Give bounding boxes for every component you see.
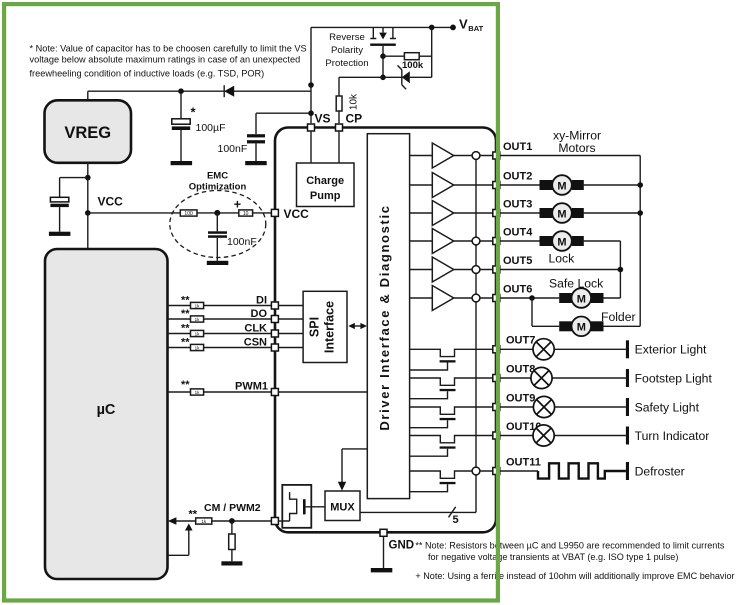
svg-text:GND: GND — [389, 540, 415, 552]
bus slash 5 marker — [449, 507, 459, 526]
node sense tap OUT4 — [472, 237, 480, 245]
wire CSN row — [168, 347, 272, 349]
wire VBAT branch vertical — [431, 27, 433, 77]
svg-text:µC: µC — [97, 402, 116, 418]
svg-text:DI: DI — [256, 294, 267, 306]
pin OUT6 — [493, 295, 500, 302]
interface SPI box — [303, 291, 347, 362]
svg-text:+ Note: Using a ferrite instea: + Note: Using a ferrite instead of 10ohm… — [415, 571, 734, 581]
node junction OUT5 lock — [618, 267, 624, 273]
buffer triangle OUT4 — [410, 229, 493, 254]
capacitor 100nF near VS — [247, 113, 311, 161]
node junction gate to 100k — [380, 53, 386, 59]
pin OUT11 — [493, 468, 500, 475]
svg-text:OUT4: OUT4 — [503, 226, 533, 238]
pin CSN — [271, 344, 278, 351]
svg-text:CM / PWM2: CM / PWM2 — [204, 502, 261, 514]
ground VREG capacitor — [49, 232, 71, 236]
pin CM/PWM2 — [271, 518, 278, 525]
label xy-Mirror Motors — [553, 129, 601, 155]
wire OUT4 row — [500, 241, 621, 298]
svg-text:Footstep Light: Footstep Light — [635, 371, 713, 385]
svg-text:VCC: VCC — [284, 207, 310, 221]
wire OUT8 row — [500, 377, 626, 379]
pin OUT8 — [493, 375, 500, 382]
node junction EMC cap — [214, 210, 220, 216]
svg-text:**: ** — [181, 379, 190, 391]
transistor current mirror box — [282, 485, 325, 528]
wire VREG bottom column to uC — [87, 163, 89, 249]
node sense tap OUT1 — [472, 152, 480, 160]
wire DO row — [168, 318, 272, 320]
svg-text:5: 5 — [453, 514, 459, 526]
wire OUT10 row — [500, 435, 626, 437]
svg-text:1k: 1k — [195, 317, 201, 322]
svg-text:M: M — [577, 293, 586, 305]
svg-text:OUT8: OUT8 — [506, 363, 535, 375]
svg-text:100nF: 100nF — [218, 143, 248, 155]
svg-text:VREG: VREG — [64, 124, 111, 142]
wire driver to MUX with arrow — [338, 449, 368, 491]
label EMC Optimization — [189, 171, 247, 193]
buffer triangle OUT1 — [410, 143, 493, 168]
transistor output OUT8 — [410, 378, 493, 399]
node sense tap OUT11 — [472, 467, 480, 475]
pin DI — [271, 302, 278, 309]
wire top supply rail to VBAT — [311, 26, 453, 28]
terminal safety light — [626, 398, 629, 416]
pin CLK — [271, 330, 278, 337]
svg-text:M: M — [577, 322, 586, 334]
svg-text:10k: 10k — [349, 93, 360, 110]
wire OUT9 row — [500, 406, 626, 408]
svg-text:100µF: 100µF — [196, 122, 226, 134]
wire OUT2 row — [500, 184, 640, 186]
svg-text:V: V — [459, 17, 468, 32]
svg-text:Interface: Interface — [323, 301, 337, 353]
buffer triangle OUT3 — [410, 201, 493, 226]
transistor Q1 reverse polarity PMOS — [370, 27, 396, 77]
svg-text:** Note: Resistors between µC: ** Note: Resistors between µC and L9950 … — [415, 540, 724, 550]
svg-text:100nF: 100nF — [227, 236, 257, 248]
pin OUT7 — [493, 346, 500, 353]
motor M lock — [540, 231, 584, 251]
svg-text:Turn Indicator: Turn Indicator — [635, 429, 710, 443]
wire SPI to driver double arrow — [348, 323, 367, 329]
capacitor 100nF EMC — [208, 213, 227, 261]
node VBAT terminal — [450, 25, 456, 31]
svg-text:Defroster: Defroster — [635, 464, 685, 478]
svg-text:M: M — [557, 236, 566, 248]
wire OUT5 row — [500, 269, 621, 271]
terminal turn indicator — [626, 427, 629, 445]
node junction on VS column lower — [308, 110, 314, 116]
resistor R DO 1k — [191, 316, 204, 322]
svg-text:for negative voltage transient: for negative voltage transients at VBAT … — [428, 552, 678, 562]
pin GND — [380, 529, 387, 536]
ground EMC capacitor — [207, 261, 229, 265]
svg-text:Protection: Protection — [325, 58, 368, 69]
ground 100uF — [171, 161, 193, 165]
resistor 10k on CP — [336, 77, 359, 123]
pin OUT10 — [493, 432, 500, 439]
terminal footstep light — [626, 369, 629, 387]
svg-text:M: M — [557, 208, 566, 220]
svg-text:CSN: CSN — [244, 336, 267, 348]
node junction CM pulldown — [229, 518, 235, 524]
svg-text:1k: 1k — [195, 332, 201, 337]
resistor 10 EMC — [239, 210, 253, 217]
motor M folder — [559, 317, 603, 337]
label Reverse Polarity Protection — [325, 32, 368, 69]
wire CM pin to mosfet box — [278, 520, 282, 522]
node junction OUT3 bus — [637, 210, 643, 216]
resistor 100k — [383, 53, 432, 71]
wire OUT11 row — [500, 470, 538, 472]
pin VS — [308, 124, 315, 131]
svg-text:M: M — [557, 180, 566, 192]
wire CM/PWM2 row with arrow into uC — [168, 517, 272, 525]
wire PWM1 pin to driver box — [278, 391, 367, 393]
svg-text:OUT11: OUT11 — [506, 456, 541, 468]
wire top rail from VREG to VS column — [88, 90, 311, 92]
wire DI pin to SPI box — [278, 305, 303, 307]
terminal exterior light — [626, 340, 629, 358]
ellipse EMC optimization dashed — [170, 191, 266, 258]
svg-text:MUX: MUX — [330, 501, 355, 513]
transistor output OUT9 — [410, 407, 493, 428]
svg-text:Charge: Charge — [306, 175, 344, 187]
wire MUX output bus — [360, 511, 476, 513]
wire branch to left capacitor — [60, 178, 88, 198]
wire DI row — [168, 305, 272, 307]
svg-text:Lock: Lock — [549, 252, 576, 266]
node junction OUT6 folder branch — [529, 295, 535, 301]
sense line vertical — [475, 156, 477, 513]
node junction OUT2 bus — [637, 182, 643, 188]
ground 100nF — [245, 161, 267, 165]
svg-text:1k: 1k — [201, 519, 207, 524]
svg-text:**: ** — [181, 308, 190, 320]
pin VCC — [271, 209, 278, 216]
resistor R CSN 1k — [191, 344, 204, 350]
wire OUT1 to mirror bus — [500, 155, 640, 157]
wire feedback up-arrow to uC — [168, 524, 193, 556]
svg-text:DO: DO — [251, 308, 268, 320]
buffer triangle OUT6 — [410, 286, 493, 311]
pin CP — [336, 124, 343, 131]
wire PWM1 row — [168, 391, 272, 393]
resistor R DI 1k — [191, 302, 204, 308]
wire VS column vertical — [310, 27, 312, 123]
pin OUT3 — [493, 210, 500, 217]
svg-text:1k: 1k — [195, 304, 201, 309]
svg-text:EMC: EMC — [207, 171, 228, 182]
node junction on VS column upper — [308, 82, 314, 88]
node junction zener to gate — [380, 75, 386, 81]
svg-text:SPI: SPI — [307, 317, 321, 337]
wire VCC rail — [88, 212, 272, 214]
wire DO pin to SPI box — [278, 318, 303, 320]
capacitor VREG output electrolytic — [50, 197, 68, 231]
transistor output OUT7 — [410, 349, 493, 370]
svg-text:10: 10 — [243, 211, 249, 217]
ground CM pulldown — [221, 561, 242, 565]
pin OUT4 — [493, 238, 500, 245]
svg-text:1k: 1k — [195, 346, 201, 351]
buffer triangle OUT5 — [410, 257, 493, 282]
lamp footstep light — [531, 367, 552, 388]
svg-text:Pump: Pump — [310, 190, 341, 202]
wire CSN pin to SPI box — [278, 347, 303, 349]
node junction 100uF top — [178, 88, 184, 94]
svg-text:OUT2: OUT2 — [503, 170, 532, 182]
note bottom resistors note — [415, 540, 724, 562]
waveform defroster square wave — [538, 463, 626, 478]
resistor CM pulldown — [229, 521, 235, 561]
green frame border — [4, 4, 498, 600]
motor M safe lock — [559, 288, 603, 308]
terminal defroster — [626, 462, 629, 480]
node junction VBAT branch — [429, 25, 435, 31]
diode D1 on top rail — [224, 85, 234, 97]
wire CLK row — [168, 333, 272, 335]
node sense tap OUT6 — [472, 294, 480, 302]
resistor R PWM1 1k — [191, 389, 204, 395]
node junction VREG decoupling branch — [85, 175, 91, 181]
lamp turn indicator — [533, 425, 554, 446]
note top-left asterisk note text — [30, 43, 307, 78]
svg-text:Motors: Motors — [558, 141, 595, 155]
svg-text:freewheeling condition of indu: freewheeling condition of inductive load… — [30, 68, 265, 78]
svg-text:OUT6: OUT6 — [503, 283, 532, 295]
pin OUT1 — [493, 152, 500, 159]
transistor output OUT10 — [410, 436, 493, 457]
driver interface box — [367, 134, 409, 499]
svg-text:BAT: BAT — [468, 24, 483, 33]
svg-text:**: ** — [181, 337, 190, 349]
capacitor 100uF electrolytic — [172, 91, 190, 161]
svg-text:OUT3: OUT3 — [503, 198, 532, 210]
buffer triangle OUT2 — [410, 173, 493, 198]
svg-text:1k: 1k — [195, 390, 201, 395]
pin DO — [271, 316, 278, 323]
svg-text:**: ** — [189, 509, 198, 521]
charge pump box — [297, 163, 355, 207]
svg-text:Reverse: Reverse — [329, 32, 365, 43]
svg-text:**: ** — [181, 323, 190, 335]
wire folder branch — [532, 298, 640, 326]
wire OUT6 row — [500, 297, 621, 299]
resistor R CLK 1k — [191, 330, 204, 336]
svg-text:CP: CP — [346, 112, 363, 126]
wire zener node to CP column — [339, 76, 383, 78]
svg-text:OUT1: OUT1 — [503, 141, 532, 153]
svg-text:**: ** — [181, 295, 190, 307]
resistor R CM 1k — [196, 518, 212, 524]
svg-text:VS: VS — [315, 112, 331, 126]
svg-text:voltage below absolute maximum: voltage below absolute maximum ratings i… — [30, 54, 301, 64]
transistor output OUT11 — [410, 471, 493, 492]
multiplexer MUX box — [325, 491, 360, 521]
wire VREG top stub — [87, 91, 89, 100]
diode Z1 zener clamp — [383, 65, 432, 89]
svg-text:Safe Lock: Safe Lock — [549, 276, 604, 290]
svg-text:OUT5: OUT5 — [503, 255, 532, 267]
svg-text:100: 100 — [184, 211, 193, 217]
svg-text:100k: 100k — [402, 60, 424, 71]
ground GND pin — [371, 536, 393, 572]
resistor 100 EMC — [180, 210, 197, 217]
lamp exterior light — [533, 339, 554, 360]
svg-text:Polarity: Polarity — [331, 45, 363, 56]
wire CP pin to charge pump — [338, 131, 340, 163]
motor M mirror-x — [540, 175, 584, 195]
wire VS pin to charge pump — [310, 131, 312, 163]
svg-text:Safety Light: Safety Light — [635, 400, 700, 414]
pin PWM1 — [271, 389, 278, 396]
pin OUT5 — [493, 266, 500, 273]
node sense tap OUT5 — [472, 266, 480, 274]
node junction VCC rail at uC column — [85, 210, 91, 216]
motor M mirror-y — [540, 203, 584, 223]
svg-text:VCC: VCC — [98, 195, 124, 209]
svg-text:CLK: CLK — [244, 322, 267, 334]
wire OUT7 row — [500, 348, 626, 350]
svg-text:OUT9: OUT9 — [506, 392, 535, 404]
svg-text:Driver Interface & Diagnostic: Driver Interface & Diagnostic — [377, 204, 392, 430]
wire mirror bus vertical — [639, 156, 641, 327]
IC L9950 outer box — [275, 128, 496, 533]
svg-text:* Note: Value of capacitor has: * Note: Value of capacitor has to be cho… — [30, 43, 307, 53]
svg-text:PWM1: PWM1 — [235, 380, 268, 392]
pin OUT9 — [493, 404, 500, 411]
svg-text:Exterior Light: Exterior Light — [635, 343, 707, 357]
lamp safety light — [533, 396, 554, 417]
svg-text:OUT7: OUT7 — [506, 335, 535, 347]
svg-text:Folder: Folder — [601, 310, 636, 324]
microcontroller uC box — [45, 249, 168, 579]
label VBAT — [459, 17, 484, 34]
regulator VREG box — [45, 100, 132, 163]
wire OUT3 row — [500, 212, 640, 214]
wire CLK pin to SPI box — [278, 333, 303, 335]
pin OUT2 — [493, 182, 500, 189]
